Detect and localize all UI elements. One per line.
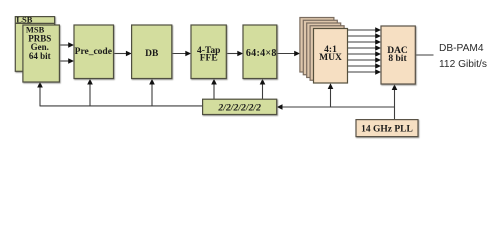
svg-text:LSB: LSB <box>16 15 32 25</box>
svg-text:14 GHz PLL: 14 GHz PLL <box>361 125 413 135</box>
svg-text:64 bit: 64 bit <box>29 51 51 61</box>
svg-text:2/2/2/2/2/2: 2/2/2/2/2/2 <box>217 103 261 114</box>
svg-text:DB-PAM4: DB-PAM4 <box>439 43 484 54</box>
svg-text:MUX: MUX <box>319 53 342 63</box>
svg-text:112 Gibit/s: 112 Gibit/s <box>439 59 487 70</box>
svg-text:8 bit: 8 bit <box>388 54 407 64</box>
svg-text:64:4×8: 64:4×8 <box>246 48 277 59</box>
svg-text:FFE: FFE <box>200 54 218 64</box>
svg-text:DB: DB <box>145 49 159 59</box>
svg-text:Pre_code: Pre_code <box>75 47 112 57</box>
